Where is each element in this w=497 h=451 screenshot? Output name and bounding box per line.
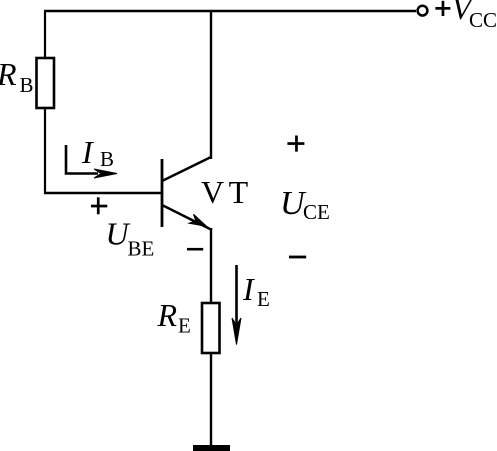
wire left vertical lower bbox=[44, 108, 46, 194]
svg-text:BE: BE bbox=[128, 237, 155, 261]
transistor VT emitter stroke bbox=[162, 205, 212, 230]
label IE bbox=[242, 271, 270, 311]
transistor VT base bar bbox=[161, 159, 164, 227]
svg-text:I: I bbox=[81, 134, 94, 170]
wire emitter vertical lower bbox=[210, 353, 212, 447]
plus sign VCC bbox=[435, 1, 450, 16]
wire emitter vertical upper bbox=[210, 228, 212, 304]
label IB bbox=[81, 134, 114, 171]
resistor RE bbox=[202, 303, 220, 353]
svg-text:B: B bbox=[20, 73, 34, 97]
transistor VT collector stroke bbox=[162, 157, 211, 181]
svg-text:E: E bbox=[178, 314, 191, 338]
wire left vertical upper bbox=[44, 10, 46, 59]
minus sign UBE bbox=[187, 248, 203, 251]
label RE bbox=[157, 297, 191, 338]
wire collector vertical bbox=[210, 10, 212, 159]
current arrow IE bbox=[232, 265, 241, 345]
plus sign UBE bbox=[91, 197, 107, 214]
wire top rail bbox=[44, 10, 416, 12]
svg-text:B: B bbox=[100, 147, 114, 171]
label VCC bbox=[452, 0, 497, 32]
svg-text:R: R bbox=[157, 297, 178, 333]
label UCE bbox=[280, 185, 330, 224]
svg-text:I: I bbox=[242, 271, 255, 307]
plus sign UCE bbox=[287, 136, 304, 152]
wire base horizontal bbox=[44, 192, 162, 194]
svg-text:CC: CC bbox=[469, 8, 497, 32]
svg-text:R: R bbox=[0, 56, 17, 92]
ground bbox=[193, 445, 230, 451]
terminal +VCC bbox=[418, 6, 428, 16]
resistor RB bbox=[37, 58, 55, 108]
svg-text:VT: VT bbox=[201, 174, 253, 210]
label UBE bbox=[106, 216, 155, 261]
svg-text:E: E bbox=[257, 287, 270, 311]
svg-text:CE: CE bbox=[303, 200, 330, 224]
label RB bbox=[0, 56, 34, 97]
minus sign UCE bbox=[289, 256, 306, 259]
current arrow IB bbox=[66, 145, 117, 178]
